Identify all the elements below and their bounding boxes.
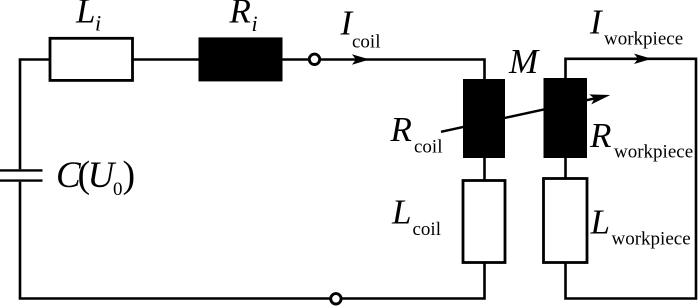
svg-text:L: L [391,193,411,232]
svg-text:M: M [508,42,540,81]
svg-text:L: L [590,202,610,241]
svg-text:0: 0 [113,179,123,200]
svg-text:): ) [123,154,136,196]
svg-text:R: R [229,0,251,30]
svg-text:workpiece: workpiece [604,29,683,50]
svg-text:workpiece: workpiece [612,229,691,250]
svg-text:I: I [589,2,604,41]
svg-text:R: R [589,116,611,155]
svg-text:L: L [75,0,95,30]
svg-text:coil: coil [352,32,381,53]
svg-text:i: i [95,11,101,36]
svg-text:R: R [390,110,412,149]
svg-text:i: i [252,11,258,36]
svg-text:coil: coil [414,137,443,158]
svg-text:workpiece: workpiece [614,142,693,163]
svg-text:coil: coil [413,219,442,240]
